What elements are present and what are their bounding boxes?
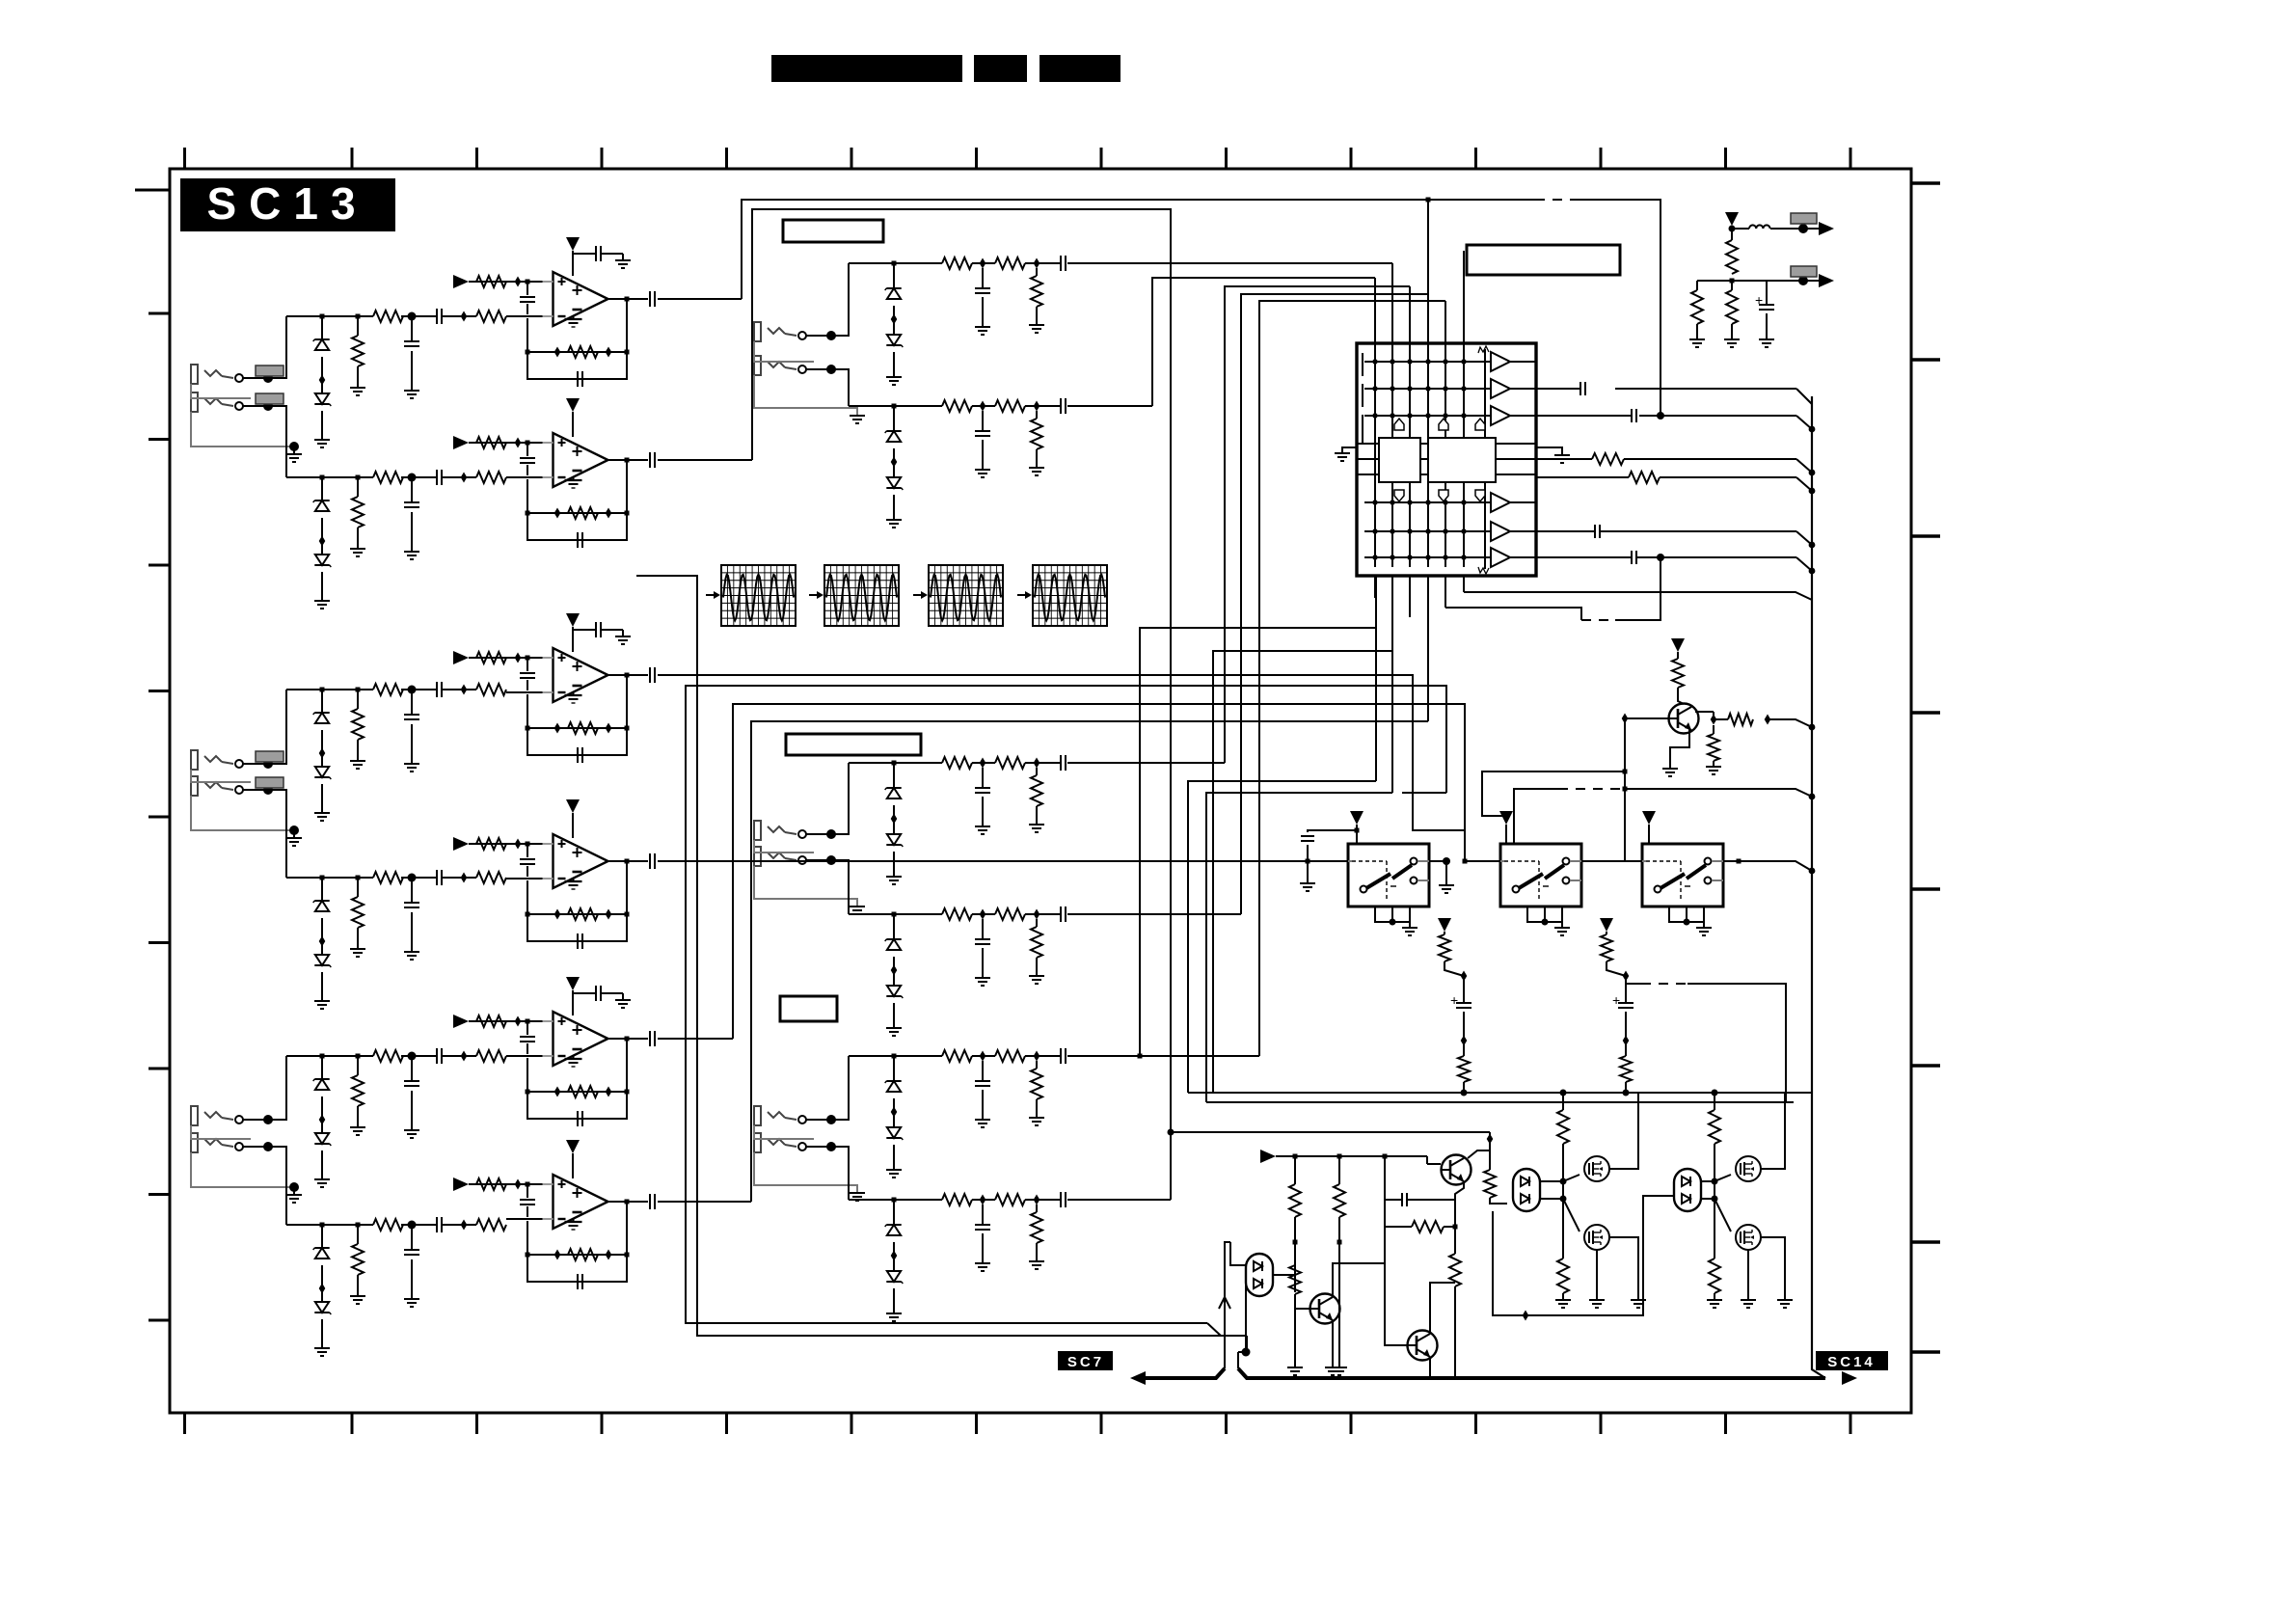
wire [411, 1059, 413, 1081]
ground [1777, 1299, 1793, 1301]
power arrow [566, 398, 580, 412]
resistor R5a [476, 1015, 506, 1027]
diode [887, 335, 901, 345]
ground [314, 812, 330, 814]
wire riser [831, 1056, 849, 1120]
diode [886, 1224, 901, 1226]
wire [1307, 845, 1309, 883]
IC U10 body [1357, 343, 1536, 576]
ground [350, 1126, 365, 1128]
wire [1409, 576, 1411, 617]
wire [1375, 907, 1410, 922]
wire S2 in [1465, 860, 1500, 862]
capacitor C3d [569, 754, 578, 756]
resistor R3b [568, 722, 598, 734]
junction [980, 401, 986, 412]
connector ref [1791, 266, 1817, 277]
capacitor C3c [649, 667, 651, 683]
ground [404, 1129, 419, 1131]
ground [975, 977, 990, 979]
wire feedback [527, 1058, 627, 1092]
wire [243, 405, 286, 407]
resistor [476, 684, 506, 695]
node [263, 1142, 273, 1151]
wire [893, 265, 895, 288]
wire [1713, 725, 1714, 734]
frame tick marks [183, 148, 186, 169]
node [1487, 1134, 1494, 1145]
net bus K [751, 721, 1428, 1202]
node [526, 441, 530, 446]
wire feedback [527, 479, 627, 513]
resistor [1031, 1212, 1042, 1243]
node [356, 1223, 361, 1228]
ground [314, 1178, 330, 1180]
ground [404, 390, 419, 392]
net rail 1 [286, 315, 373, 317]
wire [1527, 907, 1562, 922]
ground [286, 1194, 302, 1196]
IC mid row wires [1357, 443, 1379, 445]
wire [893, 1202, 895, 1225]
capacitor C1a [526, 284, 528, 295]
node [526, 912, 530, 917]
node [1657, 554, 1664, 561]
wire [1036, 411, 1038, 419]
diode D2a [314, 500, 329, 501]
jack J [754, 322, 761, 341]
wire [1207, 1323, 1221, 1336]
net rail 5 [286, 1055, 373, 1057]
node [1798, 276, 1808, 285]
wire + input [469, 281, 553, 283]
node [1809, 724, 1816, 731]
capacitor [1594, 525, 1596, 538]
IC internal row wires [1364, 361, 1485, 363]
diode [886, 1080, 901, 1082]
wire [1625, 1082, 1627, 1093]
wire [1562, 1293, 1564, 1300]
net out5 [1536, 530, 1595, 532]
resistor R4a [476, 838, 506, 850]
wire [1609, 1093, 1638, 1169]
wire [1770, 228, 1819, 230]
junction [1034, 401, 1040, 412]
wire [1703, 922, 1705, 928]
node [526, 1090, 530, 1095]
transistor Q4 [1442, 1155, 1471, 1185]
node [892, 1198, 897, 1203]
wire [1463, 576, 1465, 592]
ground [615, 259, 631, 261]
junction [1623, 1036, 1630, 1046]
node [1809, 488, 1816, 495]
node [826, 829, 836, 839]
diode D1a [314, 338, 329, 340]
capacitor [436, 870, 438, 885]
resistor [1601, 934, 1612, 961]
junction [515, 1179, 522, 1190]
wire sleeve [191, 384, 251, 398]
resistor [1672, 659, 1684, 688]
resistor [995, 908, 1025, 920]
resistor [1484, 1170, 1496, 1198]
junction [1461, 971, 1468, 982]
resistor [942, 908, 972, 920]
wire output [607, 674, 648, 676]
wire [893, 765, 895, 788]
resistor [1708, 734, 1719, 761]
node [1712, 1178, 1718, 1185]
ground [404, 763, 419, 765]
junction [515, 1016, 522, 1027]
wire chamfer [1796, 389, 1812, 404]
junction [606, 909, 612, 920]
junction [554, 1087, 561, 1097]
terminal [235, 786, 243, 794]
wire [411, 880, 413, 903]
junction [1461, 1036, 1468, 1046]
capacitor [975, 1224, 990, 1226]
wire [1342, 447, 1357, 453]
diode [886, 287, 901, 289]
wire [1696, 281, 1698, 290]
ground [1555, 1299, 1571, 1301]
resistor [1031, 419, 1042, 449]
node [1712, 1090, 1718, 1096]
wire emitter [1670, 729, 1689, 769]
wire riser up [268, 1056, 286, 1120]
capacitor [1060, 1192, 1062, 1207]
wire riser [831, 860, 849, 914]
flow arrow [1017, 594, 1025, 596]
capacitor C3b [595, 622, 597, 637]
wire [321, 972, 323, 1001]
wire feedback2 [527, 1041, 627, 1119]
capacitor C1c [649, 291, 651, 307]
node [892, 1054, 897, 1059]
ground [1287, 1367, 1303, 1368]
diode D4a [314, 900, 329, 902]
resistor [373, 472, 403, 483]
wire [1230, 1242, 1246, 1265]
wire [321, 1058, 323, 1079]
ground [350, 948, 365, 950]
junction [891, 965, 898, 976]
node [1809, 794, 1816, 800]
wire [1036, 1204, 1038, 1212]
wire - input [506, 1055, 553, 1057]
svg-text:SC7: SC7 [1067, 1354, 1104, 1370]
wire [1225, 1242, 1230, 1297]
resistor [352, 497, 364, 528]
terminal [235, 760, 243, 768]
wire [1464, 592, 1812, 600]
wire [321, 880, 323, 901]
node [1168, 1129, 1174, 1136]
diode [886, 787, 901, 789]
wire [411, 480, 413, 502]
wire [1701, 1198, 1714, 1200]
transistor Q1 [1669, 704, 1699, 734]
resistor R2b [568, 507, 598, 519]
capacitor [404, 1080, 419, 1082]
junction [980, 758, 986, 769]
wire feedback [527, 1221, 627, 1255]
wire + input [469, 1020, 553, 1022]
wire sleeve2 [191, 1152, 294, 1187]
ground [886, 519, 902, 521]
ground [1706, 766, 1721, 768]
ground [615, 999, 631, 1001]
wire [1245, 1283, 1247, 1352]
wire [1701, 1180, 1714, 1182]
resistor [942, 1050, 972, 1062]
junction [1034, 758, 1040, 769]
wire [243, 1119, 286, 1121]
resistor [1709, 1110, 1720, 1144]
wire S1 right [1429, 861, 1446, 885]
net rail 2 [286, 476, 373, 478]
junction [980, 909, 986, 920]
flow arrow [809, 594, 817, 596]
title bar 2 [974, 55, 1027, 82]
wire [1463, 1082, 1465, 1093]
wire [321, 1096, 323, 1133]
wire [806, 1146, 849, 1148]
wire [1687, 984, 1786, 1102]
resistor [995, 1050, 1025, 1062]
wire DD link [1493, 1196, 1674, 1315]
ground [1029, 1260, 1044, 1262]
node [1809, 470, 1816, 476]
jack J [754, 1133, 761, 1152]
wire [293, 1187, 295, 1195]
resistor [1334, 1184, 1345, 1217]
power arrow [566, 799, 580, 813]
wire [1714, 1093, 1715, 1110]
node [1461, 1090, 1468, 1096]
junction [461, 473, 468, 483]
svg-text:+: + [1450, 992, 1458, 1008]
wire [321, 784, 323, 813]
IC column risers [1374, 278, 1376, 353]
mosfet Q6 [1584, 1225, 1609, 1250]
node [356, 688, 361, 692]
wire [357, 479, 359, 497]
node [1138, 1054, 1143, 1059]
wire [893, 352, 895, 377]
wire [1308, 830, 1357, 832]
resistor R6a [476, 1178, 506, 1190]
junction [554, 347, 561, 358]
junction [554, 723, 561, 734]
net bias bus2 [1206, 1101, 1794, 1103]
input arrow 5 [453, 1015, 469, 1028]
wire [1678, 688, 1684, 704]
wire [321, 918, 323, 955]
net mid rail 3 [849, 762, 942, 764]
wire [1427, 576, 1429, 721]
wire [321, 411, 323, 440]
capacitor C1b [595, 246, 597, 261]
border frame [170, 169, 1911, 1413]
resistor [373, 1219, 403, 1231]
op-amp U6 [553, 1175, 608, 1229]
ground [314, 1000, 330, 1002]
jack J2 [191, 392, 198, 412]
wire + input [469, 1183, 553, 1185]
node [892, 761, 897, 766]
wire riser down [268, 790, 286, 878]
wire [243, 763, 286, 765]
wire [1768, 719, 1812, 727]
wire [1463, 1012, 1465, 1056]
diode [887, 1271, 901, 1282]
resistor [995, 257, 1025, 269]
wire sleeve2 [754, 1152, 857, 1193]
net mid rail 6 [849, 1199, 942, 1201]
node [1242, 1348, 1251, 1357]
wire [1444, 576, 1446, 608]
node [526, 1253, 530, 1258]
junction [515, 653, 522, 663]
wire [1094, 262, 1392, 264]
node [892, 404, 897, 409]
wire [982, 768, 984, 788]
wire [243, 377, 286, 379]
net drive [1276, 1155, 1427, 1157]
IC sub-block B [1428, 438, 1496, 482]
mosfet Q7 [1736, 1156, 1761, 1181]
node [1730, 279, 1735, 284]
resistor [476, 472, 506, 483]
junction [515, 839, 522, 850]
terminal [235, 402, 243, 410]
diode [887, 834, 901, 845]
wire sleeve [754, 1125, 814, 1139]
junction [606, 1087, 612, 1097]
junction [515, 277, 522, 287]
node [1809, 868, 1816, 875]
resistor [1458, 1056, 1470, 1082]
jack J [754, 821, 761, 840]
net bus A dash [1535, 199, 1574, 201]
wire - input [506, 315, 553, 317]
resistor [1709, 1259, 1720, 1293]
node [289, 1182, 299, 1192]
junction [461, 311, 468, 322]
wire [321, 1265, 323, 1302]
wire [893, 408, 895, 431]
wire [1514, 789, 1558, 800]
node [1737, 859, 1741, 864]
ground [975, 469, 990, 471]
resistor [1629, 472, 1660, 483]
node [526, 350, 530, 355]
power arrow [1600, 918, 1613, 932]
junction [319, 936, 326, 947]
IC sub-block A [1379, 438, 1420, 482]
wire riser up [268, 316, 286, 378]
flow arrow [706, 594, 714, 596]
wire [357, 880, 359, 897]
resistor [352, 709, 364, 740]
wire [1540, 1198, 1563, 1200]
capacitor C5b [595, 986, 597, 1001]
resistor [1031, 775, 1042, 806]
capacitor C2d [569, 539, 578, 541]
node [826, 855, 836, 865]
node [320, 688, 325, 692]
input arrow 3 [453, 651, 469, 664]
resistor [995, 757, 1025, 769]
wire + input [469, 657, 553, 659]
wire [1606, 961, 1626, 976]
wire [321, 1150, 323, 1179]
ground [404, 951, 419, 953]
node [263, 759, 273, 769]
waveform display 1 [721, 565, 796, 626]
wire decouple [573, 992, 596, 994]
wire [1563, 1175, 1579, 1181]
wire collector [1430, 1283, 1455, 1334]
dual diode DD1 [1246, 1254, 1273, 1296]
wire [321, 318, 323, 339]
node [356, 1054, 361, 1059]
terminal [235, 1116, 243, 1123]
ground [975, 1262, 990, 1264]
wire [893, 805, 895, 834]
resistor [1031, 276, 1042, 307]
inductor L1 [1749, 225, 1756, 229]
wire [1094, 1055, 1259, 1057]
input arrow 6 [453, 1177, 469, 1191]
capacitor [1579, 382, 1581, 395]
resistor R5b [568, 1086, 598, 1097]
wire [893, 306, 895, 335]
capacitor [436, 470, 438, 485]
ground [1325, 1367, 1340, 1368]
arrow up [1219, 1297, 1230, 1309]
wire riser [831, 1147, 849, 1200]
wire output [607, 298, 648, 300]
wire [1409, 616, 1411, 618]
ground [286, 453, 302, 455]
power arrow [566, 977, 580, 990]
ground [314, 600, 330, 602]
terminal [798, 830, 806, 838]
resistor [476, 311, 506, 322]
wire [1444, 961, 1464, 976]
node [1337, 1240, 1342, 1245]
wire [1294, 1263, 1296, 1292]
node [1798, 224, 1808, 233]
wire base [1385, 1263, 1407, 1345]
capacitor C5d [569, 1118, 578, 1120]
wire [1213, 651, 1392, 1093]
power arrow [1642, 811, 1656, 825]
capacitor [1301, 835, 1314, 837]
dual diode DD3 [1674, 1169, 1701, 1211]
node [408, 1052, 417, 1061]
node [320, 1054, 325, 1059]
node [526, 1019, 530, 1024]
ground [1631, 1299, 1646, 1301]
resistor [942, 757, 972, 769]
node [1809, 542, 1816, 549]
node [526, 280, 530, 284]
